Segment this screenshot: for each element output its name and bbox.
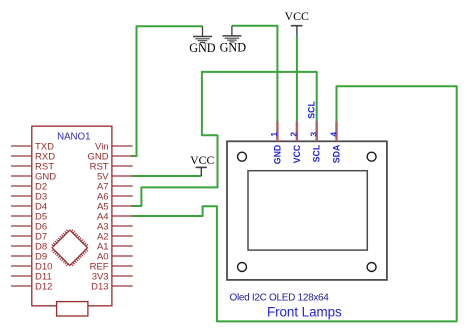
OLED pin 2 VCC [289,122,302,164]
Arduino Nano NANO1 body [32,126,112,306]
wire: ground symbol GND2 to OLED pin 1 [232,26,278,123]
NANO1 label [57,131,90,142]
svg-text:GND: GND [272,145,282,165]
svg-text:VCC: VCC [292,144,302,163]
wire: VCC symbol (top) to OLED pin 2 [296,36,298,123]
svg-text:2: 2 [289,132,299,137]
OLED pin 3 SCL [309,122,322,163]
ground symbol GND1 [193,26,212,42]
pin 5V [97,171,133,182]
pin D8 [11,241,47,252]
svg-text:3: 3 [309,132,319,137]
pin D5 [11,211,47,222]
svg-text:SCL: SCL [307,100,317,118]
pin A5 [97,201,133,212]
pin 3V3 [92,271,133,282]
svg-text:1: 1 [269,132,279,137]
pin D4 [11,201,47,212]
svg-text:VCC: VCC [285,9,309,23]
NANO1 USB connector icon [57,302,88,316]
wire: Nano 5V to VCC symbol (mid) [132,175,202,177]
OLED mounting hole bottom-left [238,263,247,272]
pin REF [90,261,133,272]
pin A7 [97,181,133,192]
pin A0 [97,251,133,262]
svg-text:VCC: VCC [190,153,214,167]
power symbol VCC (top) [291,26,303,36]
note: Front Lamps [267,305,342,320]
pin D13 [91,281,133,292]
svg-text:Front Lamps: Front Lamps [267,305,342,320]
pin A6 [97,191,133,202]
pin D11 [11,271,52,282]
pin GND [11,171,56,182]
svg-text:D12: D12 [35,281,52,292]
pin A3 [97,221,133,232]
ground symbol GND2 [222,26,241,42]
wire: Nano GND to ground symbol GND1 [132,26,203,156]
pin RST [11,161,54,172]
wire: SCL net, Nano A5 to OLED pin 3 [132,72,317,206]
svg-text:SDA: SDA [332,144,342,163]
pin D12 [11,281,52,292]
svg-text:Oled I2C OLED 128x64: Oled I2C OLED 128x64 [230,292,330,303]
pin D2 [11,181,47,192]
power symbol VCC (middle, on 5V wire) [196,167,207,176]
OLED part label [230,292,330,303]
pin A4 [97,211,133,222]
OLED module body [227,141,387,280]
wire: SDA net, Nano A4 to OLED pin 4 [132,86,457,321]
OLED mounting hole top-right [367,152,376,161]
OLED screen area [248,171,367,250]
svg-text:GND: GND [220,40,247,54]
pin GND (right) [87,151,132,162]
pin RXD [11,151,55,162]
net label SCL on wire [307,100,317,118]
pin D3 [11,191,47,202]
pin D10 [11,261,52,272]
pin A1 [97,241,133,252]
pin D7 [11,231,47,242]
OLED mounting hole top-left [238,152,247,161]
pin D9 [11,251,47,262]
svg-text:GND: GND [189,41,216,55]
pin A2 [97,231,133,242]
svg-text:4: 4 [328,132,338,137]
pin D6 [11,221,47,232]
pin Vin [95,141,133,152]
NANO1 chip icon (QFP diamond) [48,226,91,269]
svg-text:SCL: SCL [312,144,322,162]
svg-text:NANO1: NANO1 [57,131,90,142]
OLED pin 1 GND [269,122,282,165]
svg-text:D13: D13 [91,281,108,292]
pin TXD [11,141,54,152]
OLED mounting hole bottom-right [367,263,376,272]
pin RST (right) [90,161,133,172]
OLED pin 4 SDA [328,122,341,164]
